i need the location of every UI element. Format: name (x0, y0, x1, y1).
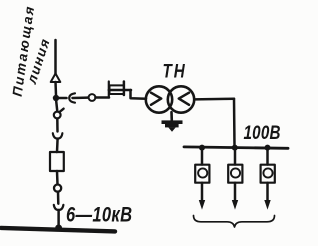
node on bus 1 (199, 145, 205, 151)
wire circle to fuse stand (96, 96, 110, 99)
brace grouping feeders (194, 216, 275, 228)
moving contact cup (upper) (53, 133, 63, 138)
contact circle with tick (disconnector) (54, 112, 61, 119)
feeder 2: wire down (234, 150, 237, 165)
wire: secondary lead right (194, 97, 234, 100)
wire: feeder triangle to junction (54, 82, 57, 95)
svg-text:100В: 100В (244, 121, 281, 143)
wire: transformer to ground (170, 112, 173, 121)
wire (56, 119, 59, 132)
wire: junction down (56, 101, 57, 111)
feeder 1: instrument box (195, 165, 209, 183)
feeder 3: wire to arrow (266, 183, 269, 201)
svg-text:6—10кВ: 6—10кВ (66, 204, 132, 228)
feeder 1: wire to arrow (201, 183, 204, 201)
wire to 6-10kV bus (57, 210, 60, 227)
chevron in secondary (179, 93, 189, 105)
fuse FU1 (horizontal rectangle) (110, 85, 125, 94)
node on bus 3 (265, 145, 271, 151)
fuse left post (108, 82, 110, 98)
arrow: hollow up triangle on feeder (51, 74, 61, 83)
feeder 1: instrument circle (198, 168, 207, 177)
wire: feeder vertical upper (54, 40, 57, 74)
ground symbol (162, 120, 183, 131)
socket cup (opens right) (69, 93, 75, 102)
feeder 2: instrument circle (231, 168, 240, 177)
contact circle on branch (89, 94, 96, 101)
feeder 3: instrument box (261, 165, 275, 183)
wire fuse to contact (56, 171, 59, 184)
wire: down to 100V bus (233, 99, 236, 146)
feeder 3: instrument circle (263, 168, 272, 177)
wire: branch from junction (59, 97, 67, 100)
fuse FU (vertical rectangle) (50, 152, 64, 171)
feeder 3: wire down (266, 150, 269, 165)
node: branch junction (53, 95, 59, 101)
svg-text:ТН: ТН (163, 60, 187, 82)
fuse right post (123, 82, 126, 96)
wire into socket (73, 96, 89, 99)
feeder 1: arrowhead (199, 200, 205, 210)
label "Питающая линия" (10, 4, 53, 98)
chevron in primary (151, 93, 161, 105)
transformer TN primary winding (146, 86, 172, 112)
feeder 2: arrowhead (232, 200, 238, 210)
wire cup to fuse (56, 139, 59, 152)
feeder 3: arrowhead (264, 200, 270, 210)
feeder 2: wire to arrow (234, 183, 237, 201)
wire: step down to transformer (131, 90, 147, 99)
bus 6-10kV (1, 228, 115, 232)
transformer TN secondary winding (168, 86, 194, 112)
fuse middle line (109, 89, 131, 92)
node on bus 2 (232, 145, 238, 151)
moving contact cup (lower) (54, 205, 64, 210)
bus 100V (184, 147, 288, 148)
node: bus junction (55, 225, 62, 232)
feeder 1: wire down (201, 150, 204, 165)
wire (57, 192, 60, 204)
feeder 2: instrument box (228, 165, 242, 183)
contact circle (lower) (54, 185, 61, 192)
